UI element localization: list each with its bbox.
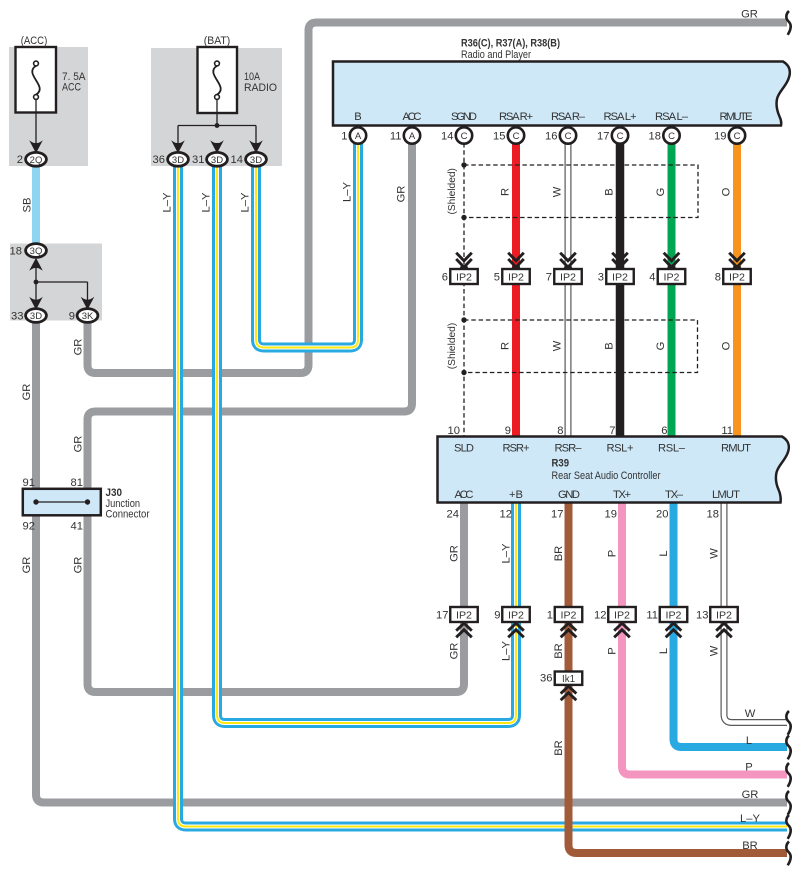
- svg-text:L–Y: L–Y: [500, 641, 512, 661]
- svg-text:3: 3: [598, 272, 604, 284]
- svg-text:20: 20: [656, 509, 668, 521]
- svg-text:3D: 3D: [211, 155, 223, 166]
- svg-text:GR: GR: [21, 557, 33, 574]
- svg-text:5: 5: [494, 272, 500, 284]
- svg-text:31: 31: [192, 154, 204, 166]
- svg-text:3D: 3D: [172, 155, 184, 166]
- svg-text:R39: R39: [552, 458, 570, 470]
- svg-text:L–Y: L–Y: [500, 543, 512, 563]
- svg-text:L–Y: L–Y: [239, 192, 251, 212]
- svg-text:L–Y: L–Y: [161, 192, 173, 212]
- svg-text:9: 9: [505, 425, 511, 437]
- svg-text:13: 13: [696, 610, 708, 622]
- svg-text:RMUT: RMUT: [721, 443, 751, 455]
- svg-text:6: 6: [442, 272, 448, 284]
- svg-text:14: 14: [441, 131, 453, 143]
- svg-text:2Q: 2Q: [30, 155, 43, 166]
- svg-text:15: 15: [493, 131, 505, 143]
- svg-text:SGND: SGND: [451, 111, 477, 123]
- svg-text:O: O: [720, 341, 732, 350]
- svg-text:10: 10: [448, 425, 460, 437]
- svg-text:Radio and Player: Radio and Player: [461, 49, 531, 61]
- svg-text:O: O: [720, 187, 732, 196]
- svg-text:RADIO: RADIO: [244, 82, 277, 94]
- svg-text:24: 24: [447, 509, 459, 521]
- svg-text:W: W: [551, 340, 563, 351]
- svg-text:41: 41: [71, 521, 83, 533]
- svg-text:(ACC): (ACC): [21, 35, 48, 47]
- svg-text:(BAT): (BAT): [204, 35, 231, 47]
- svg-text:W: W: [708, 645, 720, 656]
- svg-text:RSL+: RSL+: [607, 443, 634, 455]
- svg-text:B: B: [603, 342, 615, 349]
- svg-text:ACC: ACC: [403, 111, 422, 123]
- svg-text:12: 12: [500, 509, 512, 521]
- svg-text:SB: SB: [21, 198, 33, 213]
- svg-text:18: 18: [649, 131, 661, 143]
- svg-text:33: 33: [11, 311, 23, 323]
- svg-text:GR: GR: [21, 384, 33, 401]
- svg-text:RSA R+: RSA R+: [499, 111, 533, 123]
- svg-text:11: 11: [646, 610, 658, 622]
- svg-text:11: 11: [721, 425, 733, 437]
- svg-text:R36(C), R37(A), R38(B): R36(C), R37(A), R38(B): [461, 38, 560, 50]
- svg-text:3D: 3D: [30, 311, 42, 322]
- svg-text:18: 18: [10, 246, 22, 258]
- svg-text:B: B: [603, 188, 615, 195]
- svg-text:92: 92: [23, 521, 35, 533]
- svg-text:+B: +B: [509, 489, 523, 501]
- svg-text:GR: GR: [741, 9, 758, 21]
- svg-text:G: G: [655, 188, 667, 197]
- svg-text:ACC: ACC: [455, 489, 474, 501]
- svg-text:B: B: [354, 111, 361, 123]
- svg-text:RSR–: RSR–: [555, 443, 583, 455]
- svg-text:19: 19: [714, 131, 726, 143]
- svg-text:BR: BR: [553, 643, 565, 659]
- svg-text:36: 36: [153, 154, 165, 166]
- svg-text:(Shielded): (Shielded): [447, 168, 458, 214]
- svg-text:L: L: [658, 550, 670, 556]
- svg-text:7: 7: [609, 425, 615, 437]
- svg-text:R: R: [499, 342, 511, 350]
- svg-text:3D: 3D: [250, 155, 262, 166]
- svg-text:3Q: 3Q: [30, 246, 43, 257]
- svg-text:91: 91: [23, 477, 35, 489]
- svg-text:7: 7: [546, 272, 552, 284]
- svg-text:36: 36: [540, 673, 552, 685]
- svg-text:3K: 3K: [82, 311, 94, 322]
- svg-text:17: 17: [597, 131, 609, 143]
- svg-text:RMUTE: RMUTE: [720, 111, 753, 123]
- svg-text:BR: BR: [742, 840, 758, 852]
- svg-text:W: W: [745, 708, 756, 720]
- svg-text:Rear Seat Audio Controller: Rear Seat Audio Controller: [552, 470, 661, 482]
- svg-text:9: 9: [494, 610, 500, 622]
- svg-text:GR: GR: [72, 557, 84, 574]
- svg-text:17: 17: [436, 610, 448, 622]
- svg-text:GND: GND: [558, 489, 580, 501]
- svg-text:LMUT: LMUT: [712, 489, 740, 501]
- svg-text:RSL–: RSL–: [658, 443, 686, 455]
- svg-text:RSR+: RSR+: [503, 443, 530, 455]
- svg-text:11: 11: [390, 131, 402, 143]
- svg-text:L–Y: L–Y: [341, 182, 353, 202]
- svg-text:RSA L–: RSA L–: [655, 111, 689, 123]
- svg-text:W: W: [551, 186, 563, 197]
- svg-text:GR: GR: [448, 643, 460, 660]
- svg-text:L: L: [658, 648, 670, 654]
- svg-text:G: G: [655, 342, 667, 351]
- svg-text:L: L: [746, 735, 752, 747]
- svg-text:8: 8: [557, 425, 563, 437]
- svg-text:R: R: [499, 188, 511, 196]
- svg-text:ACC: ACC: [62, 82, 81, 94]
- svg-text:L–Y: L–Y: [740, 813, 760, 825]
- svg-text:TX–: TX–: [665, 489, 684, 501]
- svg-text:18: 18: [707, 509, 719, 521]
- svg-text:P: P: [606, 550, 618, 557]
- svg-text:RSA R–: RSA R–: [551, 111, 586, 123]
- svg-text:TX+: TX+: [613, 489, 631, 501]
- svg-text:Connector: Connector: [106, 509, 150, 521]
- svg-text:BR: BR: [553, 740, 565, 756]
- svg-text:2: 2: [17, 154, 23, 166]
- svg-text:16: 16: [545, 131, 557, 143]
- svg-text:8: 8: [715, 272, 721, 284]
- svg-text:GR: GR: [448, 545, 460, 562]
- svg-text:81: 81: [71, 477, 83, 489]
- svg-text:1: 1: [547, 610, 553, 622]
- svg-text:17: 17: [551, 509, 563, 521]
- svg-text:W: W: [708, 548, 720, 559]
- svg-text:9: 9: [69, 311, 75, 323]
- svg-text:P: P: [745, 762, 752, 774]
- svg-text:GR: GR: [742, 789, 759, 801]
- svg-text:L–Y: L–Y: [200, 192, 212, 212]
- svg-text:GR: GR: [72, 436, 84, 453]
- svg-text:6: 6: [661, 425, 667, 437]
- svg-text:GR: GR: [72, 339, 84, 356]
- svg-text:12: 12: [594, 610, 606, 622]
- svg-text:(Shielded): (Shielded): [447, 323, 458, 369]
- svg-text:RSA L+: RSA L+: [604, 111, 637, 123]
- svg-text:GR: GR: [395, 186, 407, 203]
- svg-text:Ik1: Ik1: [562, 674, 575, 685]
- svg-text:4: 4: [649, 272, 655, 284]
- svg-text:1: 1: [341, 131, 347, 143]
- svg-text:14: 14: [231, 154, 243, 166]
- svg-text:SLD: SLD: [454, 443, 474, 455]
- svg-text:P: P: [606, 647, 618, 654]
- svg-text:BR: BR: [553, 546, 565, 562]
- svg-text:19: 19: [605, 509, 617, 521]
